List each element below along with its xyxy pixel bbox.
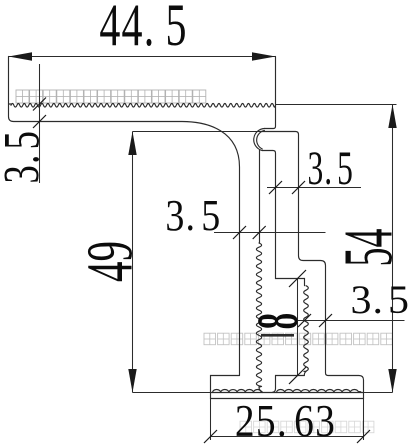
- wire: dim 3.5 upper right line: [267, 187, 361, 189]
- wire: flange serration scallops left: [213, 390, 263, 393]
- wire: dim 8 line: [297, 279, 299, 376]
- wire: dim 3.5 left line: [39, 64, 41, 183]
- wire: upper slot left wall: [259, 150, 261, 243]
- node AR4: arrow 49 down: [128, 369, 136, 393]
- wire: top bar serrated top surface: [9, 103, 12, 105]
- node TX8: underline bar of 8: [261, 334, 294, 337]
- node T3: tick 3.5 center left: [233, 226, 246, 239]
- wire: dim 49 top extension: [133, 131, 261, 133]
- wire: dim 49 line: [132, 132, 134, 393]
- wire: dim 3.5 right line: [296, 320, 405, 322]
- wire: dim 54 line: [392, 105, 394, 393]
- node A: hook bump outer arc: [254, 129, 265, 151]
- wire: dim 44.5 line: [9, 56, 276, 58]
- wire: dim 3.5 center line: [214, 232, 326, 234]
- svg-text:3.5: 3.5: [165, 190, 221, 239]
- svg-text:49: 49: [73, 241, 146, 282]
- watermark row 2: [204, 333, 392, 345]
- node T10: tick 8 bottom: [289, 367, 306, 384]
- svg-text:44.5: 44.5: [99, 0, 187, 59]
- svg-text:3.5: 3.5: [0, 130, 50, 184]
- node T6: tick 3.5 upper-right right: [292, 181, 305, 194]
- wire: dim 25.63 right extension: [363, 399, 365, 441]
- watermark row 3: [240, 421, 374, 433]
- node AR3: arrow 49 up: [128, 132, 136, 156]
- wire: arm top edge + outer right wall: [211, 132, 364, 399]
- wire: notch wall below floor: [273, 376, 276, 393]
- node AR5: arrow 54 up: [388, 105, 396, 129]
- node AR6: arrow 54 down: [388, 369, 396, 393]
- wire: serrated channel left wall (zig1): [256, 243, 261, 387]
- wire: flange serration baseline: [211, 392, 364, 394]
- svg-text:54: 54: [330, 229, 407, 267]
- node AR1: arrow 44.5 left: [9, 52, 33, 60]
- wire: channel floor: [276, 375, 305, 377]
- watermark row 1: [16, 90, 206, 103]
- wire: bump underside + inner right wall + channel step: [262, 151, 305, 286]
- node T7: tick 3.5 right left: [298, 314, 311, 327]
- wire: serrated channel right wall (zig2): [304, 286, 309, 372]
- node T8: tick 3.5 right right: [319, 314, 332, 327]
- svg-text:3.5: 3.5: [308, 142, 354, 195]
- wire: profile left edge + top-bar underside + big fillet + stem left wall: [9, 57, 240, 376]
- wire: dim 54 top extension: [276, 104, 397, 106]
- wire: flange serration scallops right: [277, 390, 362, 393]
- node AR2: arrow 44.5 right: [252, 52, 276, 60]
- svg-text:25.63: 25.63: [235, 396, 336, 446]
- node T12: tick 25.63 right: [357, 430, 370, 443]
- node T11: tick 25.63 left: [204, 430, 217, 443]
- node B: hook bump inner arc: [257, 130, 265, 149]
- node T4: tick 3.5 center right: [253, 226, 266, 239]
- wire: dim 25.63 left extension: [210, 399, 212, 441]
- node T1: tick 3.5 left top: [33, 98, 46, 111]
- wire: top bar right edge + 44.5 right extension: [265, 57, 276, 129]
- node T5: tick 3.5 upper-right left: [269, 181, 282, 194]
- wire: dim 54 bottom extension: [364, 392, 393, 394]
- svg-text:8: 8: [246, 313, 310, 329]
- node T9: tick 8 top: [289, 270, 306, 287]
- wire: dim 49 bottom extension: [133, 392, 211, 394]
- svg-text:3.5: 3.5: [350, 277, 409, 322]
- node T2: tick 3.5 left bottom: [33, 115, 46, 128]
- wire: dim 25.63 line: [211, 436, 364, 438]
